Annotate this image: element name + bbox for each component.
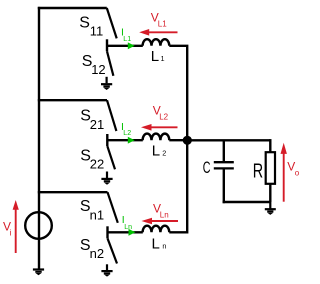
svg-text:L1: L1 <box>123 36 131 43</box>
svg-text:L2: L2 <box>159 113 168 122</box>
svg-text:L1: L1 <box>158 20 167 29</box>
current arrow I_L1 <box>128 42 135 49</box>
svg-text:i: i <box>10 227 12 237</box>
inductor Ln <box>143 226 170 233</box>
voltage source V (circle) <box>25 212 52 239</box>
wire: resistor bottom lead <box>269 184 271 202</box>
wire: right bus (output rail) <box>186 45 188 234</box>
svg-text:L: L <box>152 235 160 252</box>
svg-text:11: 11 <box>90 24 104 39</box>
svg-text:L: L <box>152 142 160 159</box>
switch S22 blade <box>107 146 115 169</box>
ground (output) <box>265 202 276 215</box>
wire: output bottom rail <box>223 201 271 203</box>
switch S21 blade <box>107 100 116 131</box>
wire: phase-1 node to L1 <box>107 45 143 47</box>
inductor L2 <box>143 134 170 141</box>
svg-text:12: 12 <box>91 62 105 77</box>
svg-text:21: 21 <box>90 117 104 132</box>
voltage arrow V_L2 <box>141 124 178 131</box>
ground (below S22) <box>101 172 112 185</box>
svg-text:Ln: Ln <box>124 224 132 231</box>
switch S21 contact tick (node 2) <box>106 134 108 146</box>
output voltage arrow V_o <box>281 143 287 202</box>
wire: capacitor top lead <box>223 140 225 161</box>
current arrow I_L2 <box>128 137 135 144</box>
capacitor C <box>214 162 234 168</box>
wire: L1 to right bus <box>169 45 186 47</box>
junction node (dot) <box>183 136 192 145</box>
svg-text:R: R <box>253 159 263 182</box>
inductor L1 <box>143 39 170 46</box>
svg-text:o: o <box>295 168 300 177</box>
svg-text:S: S <box>79 15 90 32</box>
voltage arrow V_Ln <box>141 218 178 225</box>
wire: junction to output network <box>187 139 270 141</box>
wire: top rail from bus to S11 <box>38 7 107 9</box>
wire: input bus (left vertical rail) <box>38 7 40 269</box>
wire: resistor top lead <box>269 139 271 152</box>
svg-text:1: 1 <box>161 54 165 63</box>
svg-text:22: 22 <box>90 157 104 172</box>
svg-text:Ln: Ln <box>160 210 169 219</box>
switch Sn1 contact tick (node n) <box>106 226 108 238</box>
voltage arrow V_L1 <box>139 29 177 36</box>
svg-text:n1: n1 <box>90 208 104 223</box>
wire: phase-n node to Ln <box>108 231 143 233</box>
wire: branch from bus to S21 <box>38 99 107 101</box>
resistor R <box>266 152 275 184</box>
wire: phase-2 node to L2 <box>107 139 143 141</box>
switch S11 contact tick (node 1) <box>106 39 108 51</box>
ground (below S12) <box>101 77 112 90</box>
svg-text:2: 2 <box>162 149 166 158</box>
wire: Ln to right bus <box>169 231 186 233</box>
switch S12 blade <box>107 51 113 76</box>
current arrow I_Ln <box>129 229 136 236</box>
ground (below Sn2) <box>101 264 112 276</box>
svg-text:n: n <box>162 242 166 251</box>
wire: L2 to junction <box>169 139 184 141</box>
ground (below source) <box>33 270 44 276</box>
wire: branch from bus to Sn1 <box>38 191 108 193</box>
switch Sn2 blade <box>108 238 118 263</box>
switch S11 blade <box>107 8 117 38</box>
svg-text:L2: L2 <box>123 130 131 137</box>
switch Sn1 blade <box>108 192 118 223</box>
svg-text:n2: n2 <box>90 246 104 261</box>
svg-text:C: C <box>203 159 211 178</box>
input voltage arrow V_i <box>13 200 19 253</box>
wire: capacitor bottom lead <box>223 169 225 203</box>
svg-text:L: L <box>151 48 159 65</box>
